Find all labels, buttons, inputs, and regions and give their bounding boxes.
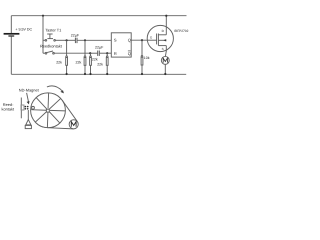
svg-text:Q: Q — [128, 51, 131, 56]
wire ground bottom rail — [11, 73, 186, 75]
motor M2 pulley — [69, 120, 78, 129]
svg-text:S: S — [162, 47, 164, 51]
node junction top rail to switches — [42, 15, 44, 17]
capacitor C1 22uF — [75, 38, 77, 43]
battery B1 — [4, 34, 20, 36]
wire S row to cap — [67, 39, 75, 41]
magnet rim circle — [32, 106, 35, 109]
svg-text:22µF: 22µF — [95, 45, 104, 49]
svg-text:ND-Magnet: ND-Magnet — [19, 88, 40, 93]
arrow ND-Magnet pointer — [27, 93, 30, 105]
switch Taster T1 — [43, 34, 67, 41]
svg-text:22µF: 22µF — [71, 33, 80, 37]
wire S row cap to box — [77, 39, 111, 41]
resistor R4 22k — [106, 53, 108, 75]
wheel with spokes — [31, 93, 66, 128]
wire R row cap2 to box — [100, 52, 112, 54]
wire left vertical battery lead top — [10, 16, 12, 33]
svg-text:22k: 22k — [56, 60, 62, 64]
reed contact body — [21, 105, 24, 110]
string — [27, 110, 29, 120]
svg-text:Reedkontakt: Reedkontakt — [40, 44, 63, 49]
motor M1 — [161, 51, 169, 75]
svg-text:+ 9,5V DC: + 9,5V DC — [15, 27, 32, 31]
resistor R5 10k — [141, 40, 143, 75]
wire switch feed vertical — [42, 16, 44, 54]
node R1 tap on S row — [66, 39, 68, 41]
svg-text:Taster T1: Taster T1 — [45, 28, 61, 33]
hook triangle — [26, 120, 31, 125]
svg-text:S: S — [114, 37, 117, 42]
reed holder vertical line — [20, 98, 22, 119]
wire Q output to gate — [131, 39, 147, 41]
node R3 tap on R row — [89, 52, 91, 54]
wire top supply rail — [11, 15, 186, 17]
svg-text:10k: 10k — [144, 56, 150, 60]
node 10k tap — [141, 39, 143, 41]
belt tangent lower — [47, 128, 73, 129]
rotation arrow — [47, 86, 64, 93]
switch Reedkontakt — [43, 51, 90, 54]
resistor R3 22k — [89, 53, 91, 75]
flip-flop U1 SR latch box — [111, 33, 131, 57]
belt tangent upper — [62, 100, 77, 121]
wire left vertical battery lead bottom — [10, 37, 12, 75]
svg-text:G: G — [150, 36, 153, 40]
svg-text:22k: 22k — [97, 62, 103, 66]
weight box — [25, 125, 31, 128]
transistor Q1 MOSFET — [147, 16, 173, 52]
magnet dark dots — [25, 106, 29, 110]
svg-text:22k: 22k — [76, 60, 82, 64]
capacitor C2 22uF — [98, 51, 100, 56]
svg-text:D: D — [162, 29, 165, 33]
svg-text:R: R — [114, 51, 117, 56]
resistor R1 22k — [66, 40, 68, 75]
wire R row to cap2 — [90, 52, 97, 54]
svg-text:kontakt: kontakt — [2, 106, 15, 111]
node drain on top rail — [165, 15, 167, 17]
svg-text:Q: Q — [128, 37, 131, 42]
node R4 tap on R row — [106, 52, 108, 54]
resistor R2 22k — [84, 40, 86, 75]
svg-text:IRFP2702: IRFP2702 — [174, 29, 189, 33]
svg-text:22k: 22k — [92, 58, 98, 62]
node R2 tap on S row — [84, 39, 86, 41]
